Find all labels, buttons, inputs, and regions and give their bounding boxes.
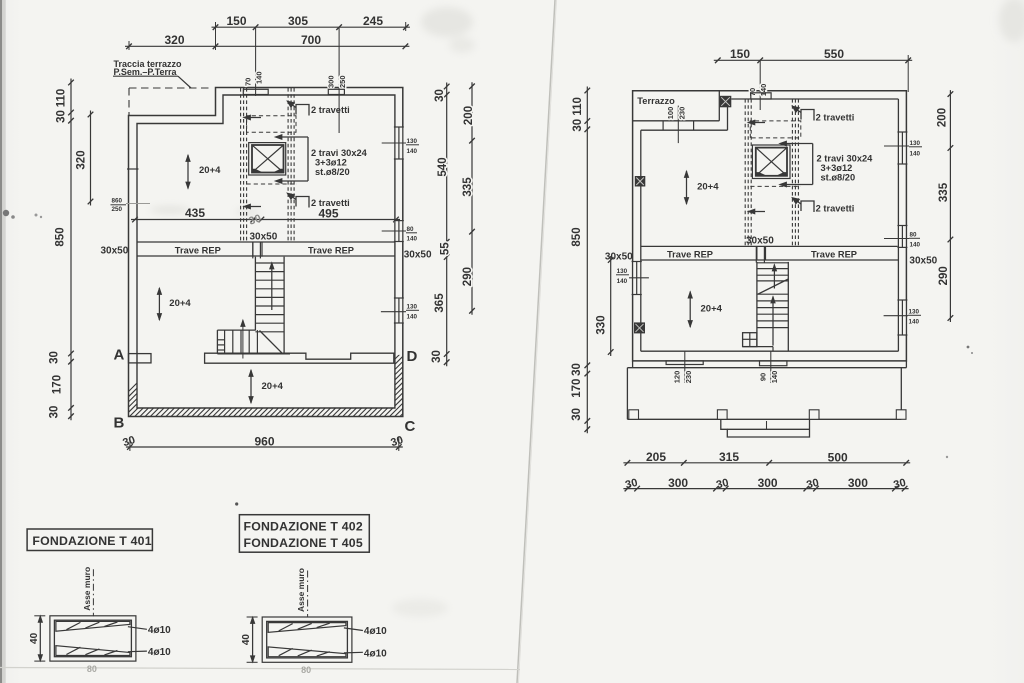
svg-text:20+4: 20+4 <box>199 165 221 176</box>
svg-text:300: 300 <box>327 75 336 88</box>
svg-text:Asse muro: Asse muro <box>296 568 306 612</box>
svg-text:540: 540 <box>437 157 449 176</box>
svg-text:70: 70 <box>244 78 253 86</box>
svg-text:40: 40 <box>241 634 252 646</box>
svg-text:20+4: 20+4 <box>169 298 191 309</box>
svg-text:80: 80 <box>910 232 918 239</box>
svg-text:3+3ø12: 3+3ø12 <box>821 163 853 173</box>
svg-text:st.ø8/20: st.ø8/20 <box>315 167 350 177</box>
svg-text:495: 495 <box>318 206 338 220</box>
svg-text:20+4: 20+4 <box>262 381 284 392</box>
svg-text:435: 435 <box>185 206 205 220</box>
svg-text:860: 860 <box>112 198 123 205</box>
svg-text:3+3ø12: 3+3ø12 <box>315 158 347 168</box>
svg-text:230: 230 <box>684 371 693 384</box>
svg-text:140: 140 <box>407 314 418 321</box>
svg-text:90: 90 <box>759 373 768 381</box>
svg-text:Trave REP: Trave REP <box>308 246 354 256</box>
svg-text:4ø10: 4ø10 <box>148 625 171 636</box>
svg-text:120: 120 <box>673 371 682 384</box>
svg-text:Trave REP: Trave REP <box>175 246 221 256</box>
svg-text:130: 130 <box>617 268 628 275</box>
svg-text:140: 140 <box>255 71 264 84</box>
svg-text:2 travetti: 2 travetti <box>816 113 855 123</box>
svg-text:30: 30 <box>572 119 584 132</box>
svg-text:140: 140 <box>909 319 920 326</box>
svg-text:130: 130 <box>910 140 921 147</box>
svg-text:Trave REP: Trave REP <box>667 250 713 260</box>
svg-text:320: 320 <box>76 150 88 169</box>
svg-text:335: 335 <box>462 177 474 197</box>
svg-text:200: 200 <box>937 108 949 127</box>
svg-text:700: 700 <box>301 33 321 47</box>
svg-text:330: 330 <box>596 315 608 334</box>
svg-text:Trave REP: Trave REP <box>811 250 857 260</box>
svg-text:500: 500 <box>828 450 848 464</box>
svg-text:4ø10: 4ø10 <box>148 647 171 658</box>
svg-text:850: 850 <box>571 227 583 246</box>
svg-text:320: 320 <box>164 33 184 47</box>
svg-text:170: 170 <box>52 375 64 394</box>
svg-text:140: 140 <box>910 151 921 158</box>
svg-text:A: A <box>114 347 125 364</box>
svg-text:130: 130 <box>407 138 418 145</box>
svg-text:250: 250 <box>338 75 347 88</box>
svg-text:80: 80 <box>301 665 311 675</box>
svg-text:290: 290 <box>938 266 950 285</box>
svg-text:Asse muro: Asse muro <box>82 567 92 611</box>
svg-text:140: 140 <box>407 148 418 155</box>
svg-text:140: 140 <box>617 278 628 285</box>
svg-text:st.ø8/20: st.ø8/20 <box>821 173 856 183</box>
svg-text:300: 300 <box>848 476 868 490</box>
svg-text:550: 550 <box>824 47 844 61</box>
svg-text:205: 205 <box>646 450 666 464</box>
svg-text:170: 170 <box>571 379 583 398</box>
svg-text:365: 365 <box>434 293 446 313</box>
svg-text:230: 230 <box>678 107 687 120</box>
svg-text:55: 55 <box>440 242 452 255</box>
svg-text:4ø10: 4ø10 <box>364 626 387 637</box>
svg-text:150: 150 <box>730 47 750 61</box>
svg-text:250: 250 <box>112 206 123 213</box>
svg-text:30x50: 30x50 <box>909 256 937 267</box>
svg-text:2 travi 30x24: 2 travi 30x24 <box>817 154 874 164</box>
svg-text:C: C <box>405 418 416 435</box>
svg-text:2 travetti: 2 travetti <box>311 105 350 115</box>
svg-text:335: 335 <box>938 182 950 202</box>
svg-text:305: 305 <box>288 14 308 28</box>
svg-text:100: 100 <box>666 107 675 120</box>
svg-text:30: 30 <box>49 351 61 364</box>
svg-text:315: 315 <box>719 450 739 464</box>
svg-text:130: 130 <box>407 304 418 311</box>
svg-text:140: 140 <box>910 242 921 249</box>
svg-text:40: 40 <box>29 632 40 644</box>
svg-text:110: 110 <box>56 89 68 108</box>
svg-text:30x50: 30x50 <box>404 250 432 261</box>
svg-text:130: 130 <box>909 309 920 316</box>
svg-text:300: 300 <box>758 476 778 490</box>
svg-text:30: 30 <box>49 406 61 419</box>
svg-text:FONDAZIONE T 401: FONDAZIONE T 401 <box>32 534 151 548</box>
svg-text:30: 30 <box>56 110 68 123</box>
svg-text:140: 140 <box>759 84 768 97</box>
svg-text:200: 200 <box>463 106 475 125</box>
svg-text:140: 140 <box>770 371 779 384</box>
svg-text:300: 300 <box>668 476 688 490</box>
svg-text:FONDAZIONE T 405: FONDAZIONE T 405 <box>244 536 363 550</box>
svg-text:P.Sem.–P.Terra: P.Sem.–P.Terra <box>114 67 178 77</box>
svg-text:30: 30 <box>571 408 583 421</box>
svg-text:70: 70 <box>748 88 757 96</box>
svg-text:30x50: 30x50 <box>746 236 774 247</box>
svg-text:20+4: 20+4 <box>701 304 723 315</box>
svg-text:FONDAZIONE T 402: FONDAZIONE T 402 <box>244 520 363 534</box>
svg-text:245: 245 <box>363 14 383 28</box>
svg-text:850: 850 <box>55 227 67 246</box>
svg-text:D: D <box>407 348 418 365</box>
svg-text:290: 290 <box>462 267 474 286</box>
svg-text:110: 110 <box>572 97 584 116</box>
svg-text:Terrazzo: Terrazzo <box>637 96 675 106</box>
svg-text:30: 30 <box>571 363 583 376</box>
svg-text:30: 30 <box>434 89 446 102</box>
svg-text:30: 30 <box>431 350 443 363</box>
svg-text:2 travi 30x24: 2 travi 30x24 <box>311 148 368 158</box>
svg-text:B: B <box>114 415 125 432</box>
svg-text:30x50: 30x50 <box>101 246 129 257</box>
svg-text:150: 150 <box>226 14 246 28</box>
svg-text:80: 80 <box>407 226 415 233</box>
svg-text:30x50: 30x50 <box>250 232 278 243</box>
svg-text:960: 960 <box>254 434 274 448</box>
svg-text:20+4: 20+4 <box>697 182 719 193</box>
svg-text:140: 140 <box>407 236 418 243</box>
svg-text:30x50: 30x50 <box>605 252 633 263</box>
svg-text:4ø10: 4ø10 <box>364 648 387 659</box>
svg-text:80: 80 <box>87 664 97 674</box>
svg-text:2 travetti: 2 travetti <box>816 204 855 214</box>
